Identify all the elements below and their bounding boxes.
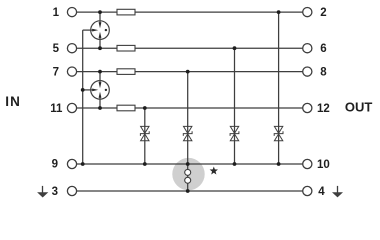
wire row5 left xyxy=(77,47,117,49)
junction row1-D4 xyxy=(277,10,281,14)
terminal 10 xyxy=(303,159,312,168)
wire drop to D4 xyxy=(278,12,280,164)
junction bus-D1 xyxy=(143,162,147,166)
wire GDT vertical 2 xyxy=(99,72,101,108)
wire bus row9 xyxy=(77,163,303,165)
wire row7 left xyxy=(77,71,117,73)
wire ground row3 xyxy=(77,190,303,192)
gas discharge tube F1 xyxy=(91,21,110,40)
wire row1 right xyxy=(135,11,303,13)
wire row7 right xyxy=(135,71,303,73)
junction row7-D2 xyxy=(186,70,190,74)
terminal 6 xyxy=(303,44,312,53)
junction bus-earth vertical xyxy=(81,162,85,166)
svg-text:10: 10 xyxy=(317,159,330,171)
terminal 12 xyxy=(303,103,312,112)
suppressor diode D2 xyxy=(183,126,192,140)
junction row5-D3 xyxy=(233,46,237,50)
svg-text:9: 9 xyxy=(52,159,58,171)
terminal 4 xyxy=(303,186,312,195)
suppressor diode D1 xyxy=(140,126,149,140)
resistor R1 xyxy=(117,9,135,15)
svg-text:OUT: OUT xyxy=(345,100,373,115)
gas discharge tube F2 xyxy=(91,81,110,100)
wire GDT1 left electrode xyxy=(83,29,93,31)
wire drop to D3 xyxy=(234,48,236,164)
wire row1 left xyxy=(77,11,117,13)
junction row11-D1 xyxy=(143,106,147,110)
ground symbol left xyxy=(37,186,48,198)
junction earth-GDT2 electrode xyxy=(81,88,85,92)
junction row7-GDT2 xyxy=(98,70,102,74)
suppressor diode D4 xyxy=(274,126,283,140)
junction bus-D2 xyxy=(186,162,190,166)
resistor R4 xyxy=(117,105,135,111)
junction row5-GDT1 xyxy=(98,46,102,50)
svg-text:12: 12 xyxy=(317,103,330,115)
wire drop to D2 xyxy=(187,72,189,164)
svg-text:6: 6 xyxy=(320,43,326,55)
isolating contact lower xyxy=(185,177,191,183)
wire bus to ground link xyxy=(187,164,189,191)
wire row11 right xyxy=(135,107,303,109)
terminal 7 xyxy=(67,67,76,76)
wire drop to D1 xyxy=(144,108,146,164)
star marker xyxy=(210,167,218,175)
shield-earthing gray highlight xyxy=(172,158,204,190)
svg-text:IN: IN xyxy=(5,94,21,109)
terminal 2 xyxy=(303,8,312,17)
resistor R2 xyxy=(117,45,135,51)
isolating contact upper xyxy=(185,169,191,175)
terminal 3 xyxy=(67,186,76,195)
resistor R3 xyxy=(117,69,135,75)
wire row5 right xyxy=(135,47,303,49)
wire row11 left xyxy=(77,107,117,109)
terminal 11 xyxy=(67,103,76,112)
terminal 9 xyxy=(67,159,76,168)
svg-text:11: 11 xyxy=(50,103,63,115)
ground symbol right xyxy=(332,186,343,198)
junction row1-GDT1 xyxy=(98,10,102,14)
terminal 8 xyxy=(303,67,312,76)
junction ground-link xyxy=(186,189,190,193)
terminal 1 xyxy=(67,8,76,17)
svg-text:1: 1 xyxy=(53,7,60,19)
svg-text:7: 7 xyxy=(53,67,59,79)
svg-text:8: 8 xyxy=(320,67,327,79)
wire GDT2 left electrode xyxy=(83,89,93,91)
svg-text:4: 4 xyxy=(318,186,325,198)
junction bus-D3 xyxy=(233,162,237,166)
wire earth vertical xyxy=(82,30,84,164)
svg-text:5: 5 xyxy=(53,43,60,55)
svg-text:2: 2 xyxy=(320,7,326,19)
junction bus-D4 xyxy=(277,162,281,166)
junction row11-GDT2 xyxy=(98,106,102,110)
terminal 5 xyxy=(67,44,76,53)
suppressor diode D3 xyxy=(230,126,239,140)
wire GDT vertical 1 xyxy=(99,12,101,48)
svg-text:3: 3 xyxy=(52,186,58,198)
